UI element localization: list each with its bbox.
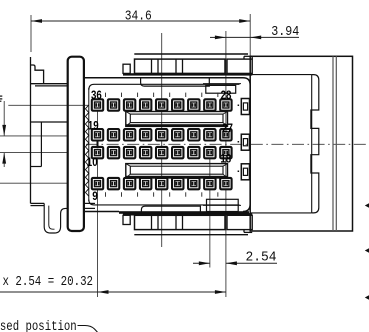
svg-text:Closed position: Closed position	[0, 319, 77, 332]
svg-text:9: 9	[92, 191, 98, 203]
svg-text:10: 10	[87, 157, 98, 169]
svg-text:19: 19	[88, 121, 99, 133]
svg-text:3.94: 3.94	[271, 24, 299, 40]
svg-text:34.6: 34.6	[125, 8, 152, 24]
svg-text:2.54: 2.54	[246, 250, 277, 266]
svg-text:27: 27	[222, 123, 233, 135]
svg-text:28: 28	[221, 90, 232, 102]
svg-text:36: 36	[91, 90, 102, 102]
svg-text:8 x 2.54 = 20.32: 8 x 2.54 = 20.32	[0, 274, 93, 290]
svg-text:18: 18	[220, 153, 231, 165]
